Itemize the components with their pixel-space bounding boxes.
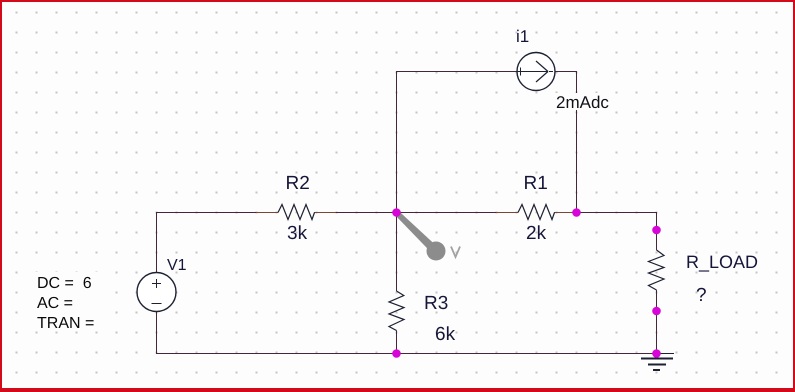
wire: vertical from node A up to top rail [396, 71, 398, 212]
svg-text:V1: V1 [167, 257, 187, 274]
wire: R3 bottom to ground rail [396, 331, 398, 355]
resistor R2 [256, 205, 336, 220]
node R_LOAD bottom junction dot [652, 307, 661, 316]
voltage source V1 [137, 273, 176, 312]
svg-text:DC = 6: DC = 6 [37, 275, 92, 292]
resistor R_LOAD [649, 250, 665, 290]
svg-text:2k: 2k [526, 223, 547, 244]
resistor R3 [389, 291, 404, 331]
wire: main horizontal net from V1 top to R2 [156, 212, 256, 214]
svg-text:3k: 3k [287, 223, 308, 244]
svg-text:R1: R1 [524, 173, 548, 194]
svg-text:R_LOAD: R_LOAD [686, 252, 758, 272]
svg-text:AC =: AC = [37, 295, 73, 312]
wire: right corner down to R_LOAD [656, 212, 658, 250]
wire: bottom ground rail [156, 353, 657, 355]
svg-text:R3: R3 [424, 293, 448, 314]
wire: node B to right corner [576, 212, 657, 214]
svg-text:?: ? [696, 285, 707, 306]
svg-text:R2: R2 [286, 173, 310, 194]
svg-text:i1: i1 [516, 27, 529, 46]
node R3 bottom junction dot [392, 349, 401, 358]
node ground junction dot [652, 349, 661, 358]
svg-text:TRAN =: TRAN = [37, 315, 94, 332]
wire: node A to R1 left [396, 212, 496, 214]
wire: V1 top lead [156, 212, 158, 273]
resistor R1 [496, 205, 576, 220]
wire: V1 bottom lead to ground rail [156, 311, 158, 354]
wire: R2 right to node A [336, 212, 396, 214]
svg-text:6k: 6k [435, 324, 456, 345]
ground [641, 354, 674, 371]
svg-text:2mAdc: 2mAdc [556, 93, 609, 112]
current source i1 [517, 53, 555, 91]
value text DC/AC/TRAN [34, 272, 106, 332]
node R_LOAD top junction dot [652, 226, 661, 235]
probe marker V (viewpoint) [396, 212, 460, 261]
value 2mAdc [554, 93, 611, 112]
wire: node A down to R3 [396, 212, 398, 291]
node B junction dot [572, 208, 581, 217]
node A junction dot [392, 208, 401, 217]
wire: top rail to current source i1 [396, 71, 517, 73]
wire: R_LOAD bottom to ground [656, 290, 658, 354]
wire: i1 right to corner and down to node B [555, 71, 577, 73]
